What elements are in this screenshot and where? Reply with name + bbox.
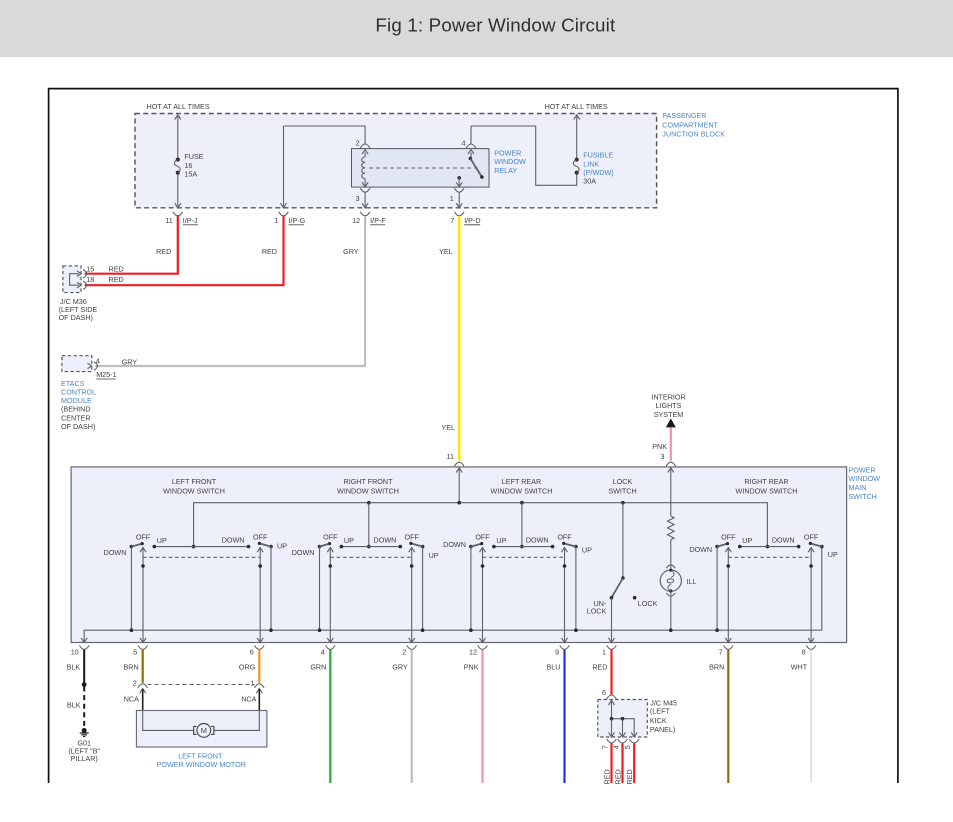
svg-text:7: 7 <box>603 745 610 749</box>
svg-text:30A: 30A <box>583 177 596 186</box>
svg-text:LEFT FRONT: LEFT FRONT <box>172 477 217 486</box>
svg-text:OFF: OFF <box>557 532 572 541</box>
svg-text:WINDOW: WINDOW <box>494 157 526 166</box>
svg-text:WINDOW SWITCH: WINDOW SWITCH <box>337 486 399 495</box>
svg-text:FUSE: FUSE <box>184 152 203 161</box>
svg-text:M: M <box>201 726 207 735</box>
svg-text:PNK: PNK <box>652 442 667 451</box>
svg-text:DOWN: DOWN <box>222 535 245 544</box>
svg-text:2: 2 <box>133 679 137 688</box>
svg-text:UP: UP <box>496 536 506 545</box>
svg-text:GRY: GRY <box>343 247 359 256</box>
svg-text:1: 1 <box>450 194 454 203</box>
svg-text:7: 7 <box>450 216 454 225</box>
svg-text:1: 1 <box>602 647 606 656</box>
svg-text:SWITCH: SWITCH <box>849 492 877 501</box>
svg-text:PILLAR): PILLAR) <box>71 754 98 763</box>
svg-text:FUSIBLE: FUSIBLE <box>583 151 613 160</box>
svg-text:11: 11 <box>447 452 454 461</box>
svg-text:OFF: OFF <box>721 532 736 541</box>
svg-text:LEFT REAR: LEFT REAR <box>502 477 541 486</box>
svg-text:DOWN: DOWN <box>526 535 549 544</box>
svg-text:I/P-G: I/P-G <box>289 216 306 225</box>
svg-text:9: 9 <box>555 647 559 656</box>
svg-text:BLK: BLK <box>67 701 81 710</box>
svg-text:DOWN: DOWN <box>443 540 466 549</box>
svg-text:LOCK: LOCK <box>613 477 633 486</box>
svg-text:UP: UP <box>582 545 592 554</box>
svg-text:GRY: GRY <box>122 358 138 367</box>
svg-text:PNK: PNK <box>464 663 479 672</box>
svg-text:3: 3 <box>661 452 665 461</box>
svg-text:DOWN: DOWN <box>104 548 127 557</box>
svg-text:4: 4 <box>614 745 621 749</box>
svg-text:OFF: OFF <box>475 532 490 541</box>
svg-text:OF DASH): OF DASH) <box>61 422 95 431</box>
svg-text:ILL: ILL <box>687 577 697 586</box>
svg-text:RED: RED <box>625 769 634 784</box>
svg-text:BLK: BLK <box>67 663 81 672</box>
svg-text:GRN: GRN <box>310 663 326 672</box>
svg-text:M25-1: M25-1 <box>96 370 116 379</box>
svg-text:2: 2 <box>356 139 360 148</box>
svg-text:18: 18 <box>86 275 94 284</box>
svg-text:WHT: WHT <box>791 663 808 672</box>
svg-text:I/P-D: I/P-D <box>464 216 480 225</box>
svg-text:RIGHT REAR: RIGHT REAR <box>744 477 788 486</box>
svg-text:LIGHTS: LIGHTS <box>656 401 682 410</box>
svg-text:UP: UP <box>828 550 838 559</box>
svg-text:SYSTEM: SYSTEM <box>654 410 684 419</box>
svg-text:WINDOW: WINDOW <box>849 474 881 483</box>
svg-text:DOWN: DOWN <box>292 548 315 557</box>
svg-text:SWITCH: SWITCH <box>608 486 636 495</box>
svg-text:DOWN: DOWN <box>772 535 795 544</box>
svg-text:RELAY: RELAY <box>494 166 517 175</box>
svg-text:NCA: NCA <box>241 694 256 703</box>
svg-text:WINDOW SWITCH: WINDOW SWITCH <box>491 486 553 495</box>
svg-text:3: 3 <box>356 194 360 203</box>
svg-text:OFF: OFF <box>405 532 420 541</box>
svg-text:RIGHT FRONT: RIGHT FRONT <box>344 477 394 486</box>
svg-text:RED: RED <box>262 247 277 256</box>
svg-text:I/P-F: I/P-F <box>370 216 386 225</box>
svg-text:NCA: NCA <box>124 694 139 703</box>
svg-text:WINDOW SWITCH: WINDOW SWITCH <box>736 486 798 495</box>
svg-text:5: 5 <box>625 745 632 749</box>
svg-text:5: 5 <box>133 647 137 656</box>
svg-text:UP: UP <box>157 536 167 545</box>
svg-text:12: 12 <box>469 647 477 656</box>
svg-text:HOT AT ALL TIMES: HOT AT ALL TIMES <box>545 102 608 111</box>
svg-text:8: 8 <box>802 647 806 656</box>
svg-text:BRN: BRN <box>709 663 724 672</box>
svg-text:HOT AT ALL TIMES: HOT AT ALL TIMES <box>147 102 210 111</box>
svg-text:4: 4 <box>321 647 325 656</box>
svg-text:RED: RED <box>156 247 171 256</box>
svg-text:BRN: BRN <box>124 663 139 672</box>
svg-text:2: 2 <box>402 647 406 656</box>
svg-text:UP: UP <box>344 536 354 545</box>
svg-text:LINK: LINK <box>583 159 599 168</box>
svg-text:RED: RED <box>109 265 124 274</box>
svg-text:OFF: OFF <box>323 532 338 541</box>
svg-text:10: 10 <box>71 647 79 656</box>
svg-text:15: 15 <box>86 265 94 274</box>
svg-text:DOWN: DOWN <box>374 535 397 544</box>
svg-text:4: 4 <box>462 139 466 148</box>
svg-text:LOCK: LOCK <box>638 599 658 608</box>
svg-text:RED: RED <box>603 769 612 784</box>
svg-text:YEL: YEL <box>441 423 455 432</box>
svg-text:11: 11 <box>165 216 172 225</box>
svg-text:POWER: POWER <box>849 465 876 474</box>
svg-text:DOWN: DOWN <box>689 545 712 554</box>
svg-text:1: 1 <box>275 216 279 225</box>
svg-text:RED: RED <box>592 663 607 672</box>
svg-text:GRY: GRY <box>392 663 408 672</box>
svg-text:12: 12 <box>352 216 360 225</box>
svg-text:OFF: OFF <box>804 532 819 541</box>
svg-text:6: 6 <box>250 647 254 656</box>
svg-text:I/P-J: I/P-J <box>183 216 198 225</box>
svg-text:MAIN: MAIN <box>849 483 867 492</box>
svg-text:OFF: OFF <box>136 532 151 541</box>
svg-text:OFF: OFF <box>253 532 268 541</box>
svg-text:1: 1 <box>250 678 254 687</box>
svg-text:Fig 1: Power Window Circuit: Fig 1: Power Window Circuit <box>375 15 616 36</box>
svg-text:RED: RED <box>109 275 124 284</box>
svg-text:(P/WDW): (P/WDW) <box>583 168 613 177</box>
svg-text:YEL: YEL <box>439 247 453 256</box>
svg-text:UP: UP <box>429 551 439 560</box>
svg-text:RED: RED <box>614 769 623 784</box>
svg-text:JUNCTION BLOCK: JUNCTION BLOCK <box>662 130 725 139</box>
svg-text:7: 7 <box>719 647 723 656</box>
svg-text:LOCK: LOCK <box>587 607 607 616</box>
svg-text:ORG: ORG <box>239 663 256 672</box>
svg-text:4: 4 <box>96 357 100 366</box>
svg-text:KICK: KICK <box>650 716 667 725</box>
svg-text:UP: UP <box>742 536 752 545</box>
svg-text:POWER WINDOW MOTOR: POWER WINDOW MOTOR <box>157 760 246 769</box>
svg-text:COMPARTMENT: COMPARTMENT <box>662 120 718 129</box>
svg-text:PASSENGER: PASSENGER <box>662 111 706 120</box>
svg-text:15A: 15A <box>184 169 197 178</box>
svg-text:OF DASH): OF DASH) <box>59 313 93 322</box>
svg-text:PANEL): PANEL) <box>650 725 675 734</box>
svg-text:(LEFT: (LEFT <box>650 706 671 715</box>
svg-text:INTERIOR: INTERIOR <box>651 392 685 401</box>
svg-text:POWER: POWER <box>494 148 521 157</box>
svg-text:BLU: BLU <box>547 663 561 672</box>
svg-text:UP: UP <box>277 542 287 551</box>
svg-text:WINDOW SWITCH: WINDOW SWITCH <box>163 486 225 495</box>
svg-text:6: 6 <box>602 688 606 697</box>
